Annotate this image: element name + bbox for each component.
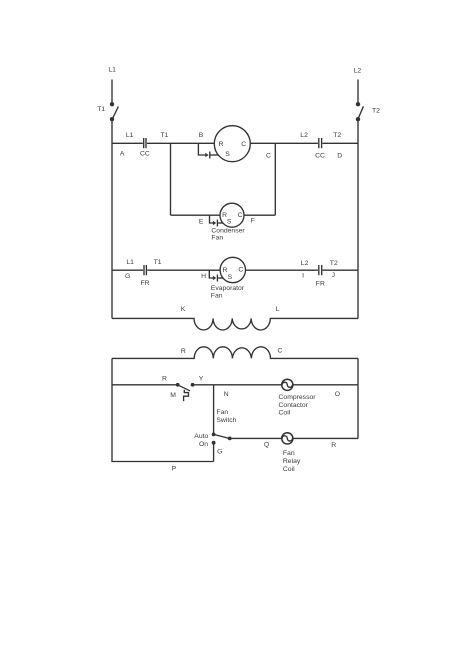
- svg-text:K: K: [181, 306, 186, 313]
- svg-text:Condenser: Condenser: [211, 227, 245, 234]
- quick-connect condenser terminal: [213, 220, 223, 227]
- wire rail2 left segment: [112, 269, 143, 271]
- wire condenser bottom left: [171, 214, 221, 216]
- wire condenser branch left: [170, 143, 172, 215]
- quick-connect start terminal: [199, 132, 219, 158]
- condenser fan motor: [220, 203, 244, 227]
- svg-text:R: R: [162, 375, 167, 382]
- transformer primary: [112, 306, 358, 330]
- node L2: [354, 67, 362, 74]
- svg-text:T1: T1: [161, 132, 169, 139]
- svg-text:S: S: [227, 219, 232, 226]
- svg-text:Relay: Relay: [283, 458, 301, 465]
- svg-text:Fan: Fan: [211, 235, 223, 242]
- wire left rail: [111, 121, 113, 318]
- fan relay contact FR (L2-T2): [301, 260, 338, 288]
- svg-text:T1: T1: [97, 106, 105, 113]
- svg-text:G: G: [217, 449, 222, 456]
- wire rail1 mid segment: [147, 142, 214, 144]
- wire rail2 right segment: [246, 269, 318, 271]
- wire L1 lead: [111, 80, 113, 103]
- svg-text:Compressor: Compressor: [279, 394, 317, 401]
- wire rail1 left segment: [112, 142, 143, 144]
- node Q: [264, 442, 269, 449]
- wire rail5 right: [193, 384, 282, 386]
- compressor motor: [214, 126, 250, 162]
- svg-text:M: M: [170, 392, 176, 399]
- svg-text:T2: T2: [330, 260, 338, 267]
- evaporator labels: [211, 285, 245, 299]
- svg-text:L1: L1: [126, 259, 134, 266]
- svg-text:Auto: Auto: [194, 433, 208, 440]
- wire L2 lead: [357, 80, 359, 103]
- svg-text:C: C: [266, 153, 271, 160]
- svg-text:C: C: [238, 267, 243, 274]
- wire rail2 mid segment: [147, 269, 220, 271]
- disconnect switch T2: [356, 102, 380, 121]
- svg-text:L2: L2: [301, 260, 309, 267]
- svg-text:L2: L2: [300, 132, 308, 139]
- wire condenser start branch: [210, 215, 214, 223]
- transformer secondary: [112, 347, 358, 359]
- svg-text:CC: CC: [140, 151, 150, 158]
- svg-text:T2: T2: [372, 108, 380, 115]
- svg-text:Contactor: Contactor: [279, 402, 309, 409]
- svg-text:FR: FR: [141, 280, 150, 287]
- node L1: [108, 66, 116, 73]
- svg-text:C: C: [241, 141, 246, 148]
- svg-text:Q: Q: [264, 442, 269, 449]
- svg-text:A: A: [120, 150, 125, 157]
- svg-text:J: J: [332, 272, 335, 279]
- node N label: [224, 391, 229, 398]
- wire rail6 left: [230, 437, 282, 439]
- node P: [172, 465, 177, 472]
- svg-text:Evaporator: Evaporator: [211, 285, 245, 292]
- svg-text:L: L: [276, 306, 280, 313]
- svg-text:R: R: [219, 141, 224, 148]
- wire condenser branch right: [274, 143, 276, 215]
- evaporator fan motor: [220, 257, 245, 282]
- disconnect switch T1: [97, 102, 118, 121]
- svg-text:Y: Y: [199, 375, 204, 382]
- wire rail2 to right rail: [323, 269, 359, 271]
- svg-text:Fan: Fan: [283, 450, 295, 457]
- svg-text:T2: T2: [333, 132, 341, 139]
- svg-text:L2: L2: [354, 67, 362, 74]
- svg-text:Coil: Coil: [279, 410, 291, 417]
- svg-text:P: P: [172, 465, 177, 472]
- svg-text:R: R: [181, 348, 186, 355]
- svg-text:Fan: Fan: [211, 292, 223, 299]
- svg-text:Fan: Fan: [217, 409, 229, 416]
- condenser labels: [199, 218, 255, 242]
- svg-text:D: D: [337, 152, 342, 159]
- wire rail1 to right rail: [322, 142, 358, 144]
- svg-text:B: B: [199, 132, 204, 139]
- wire rail5 left: [112, 384, 178, 386]
- wire G to bottom rail: [213, 443, 215, 462]
- svg-text:G: G: [125, 273, 130, 280]
- compressor contactor coil: [279, 379, 317, 416]
- svg-text:R: R: [331, 442, 336, 449]
- svg-text:On: On: [199, 441, 208, 448]
- quick-connect evaporator terminal: [201, 273, 223, 282]
- svg-text:S: S: [225, 151, 230, 158]
- wire rail6 to right vertical: [293, 437, 358, 439]
- svg-text:H: H: [201, 273, 206, 280]
- contactor contact CC (L2-T2): [266, 132, 342, 160]
- node O: [335, 391, 340, 398]
- node R (fan relay right): [331, 442, 336, 449]
- svg-text:Coil: Coil: [283, 466, 295, 473]
- wire evaporator start branch: [209, 270, 213, 278]
- wire condenser bottom right: [244, 214, 275, 216]
- svg-text:O: O: [335, 391, 340, 398]
- node N wire (fan switch feed): [213, 385, 215, 435]
- svg-text:Switch: Switch: [216, 417, 236, 424]
- fan relay coil: [282, 433, 301, 473]
- wire control right vertical: [357, 358, 359, 438]
- svg-text:E: E: [199, 218, 204, 225]
- svg-text:N: N: [224, 391, 229, 398]
- svg-text:FR: FR: [316, 281, 325, 288]
- wire control left side: [112, 358, 214, 461]
- fan switch: [194, 409, 236, 456]
- wire compressor start branch: [198, 143, 206, 155]
- svg-text:CC: CC: [315, 153, 325, 160]
- svg-text:I: I: [302, 272, 304, 279]
- svg-text:L1: L1: [108, 66, 116, 73]
- svg-text:C: C: [278, 348, 283, 355]
- svg-text:T1: T1: [154, 259, 162, 266]
- fan relay contact FR (L1-T1): [125, 259, 162, 287]
- thermostat switch M-Y: [162, 375, 204, 401]
- svg-text:C: C: [238, 212, 243, 219]
- wire rail5 to right vertical: [293, 384, 358, 386]
- svg-text:S: S: [228, 274, 233, 281]
- svg-text:F: F: [251, 218, 255, 225]
- wire rail1 right segment: [250, 142, 318, 144]
- contactor contact CC (L1-T1): [120, 132, 169, 158]
- wire right rail: [357, 121, 359, 318]
- svg-text:L1: L1: [126, 132, 134, 139]
